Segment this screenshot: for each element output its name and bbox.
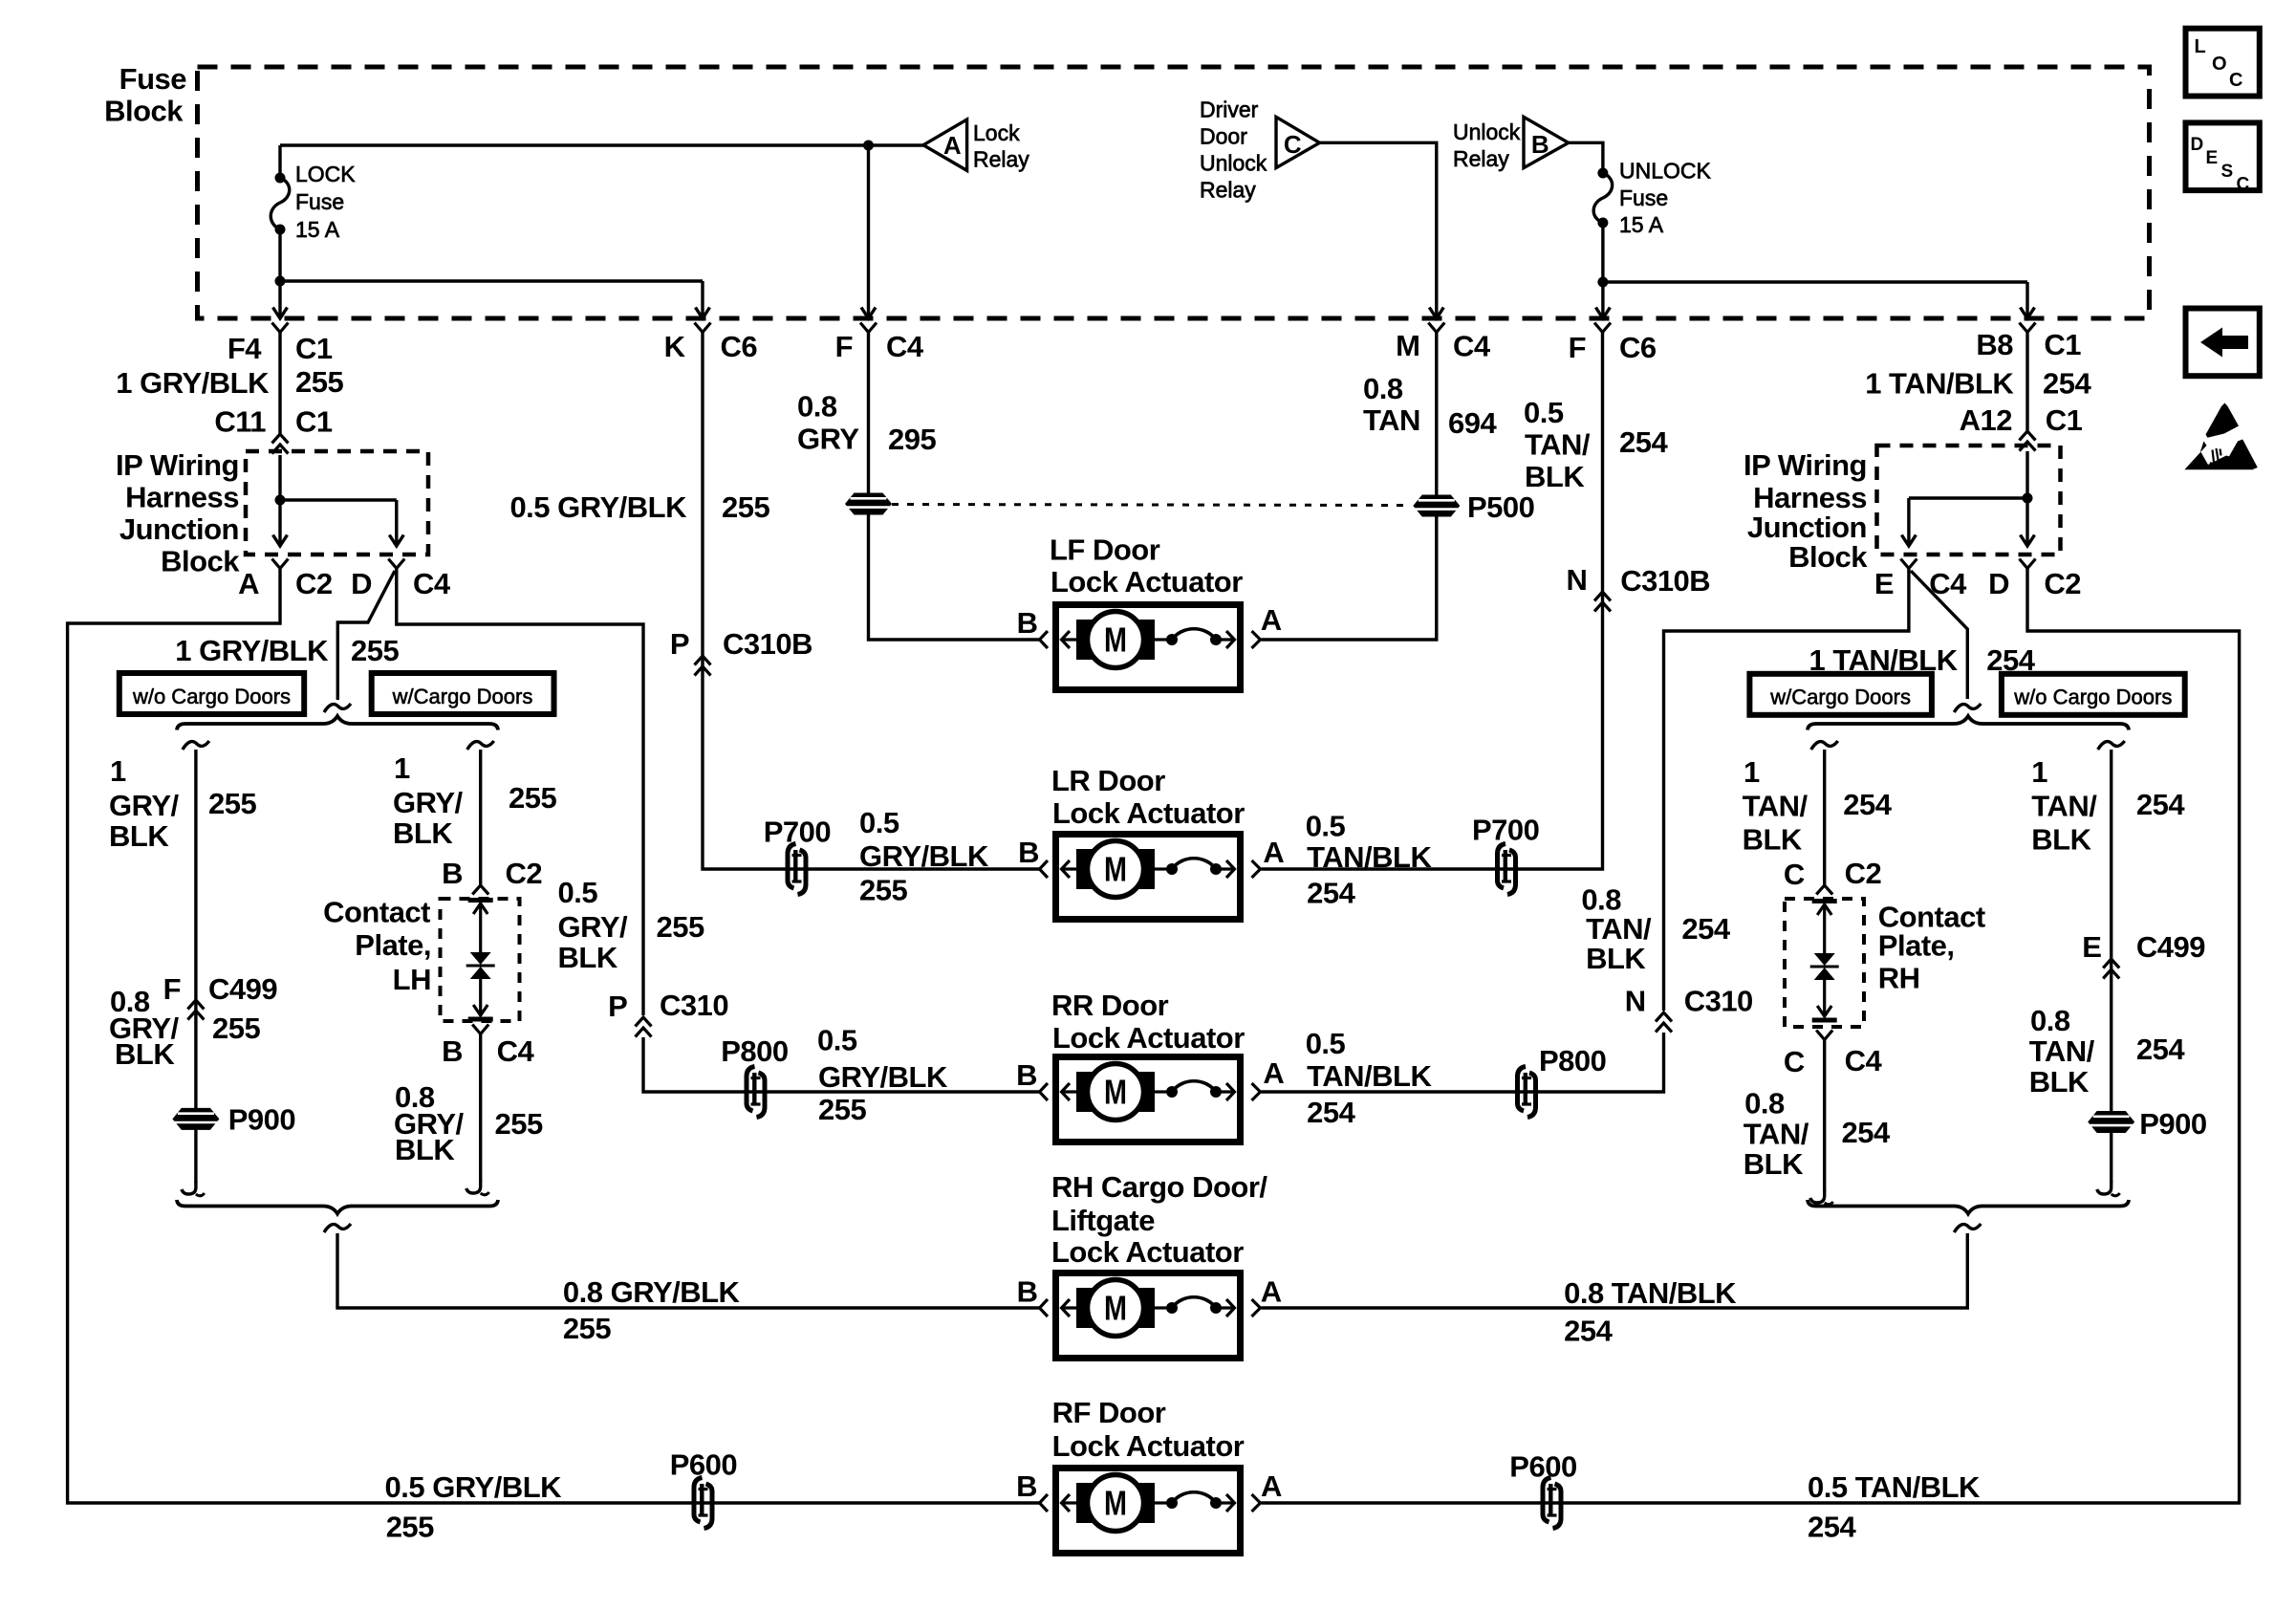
svg-text:C4: C4 [886, 330, 924, 363]
svg-text:Unlock: Unlock [1453, 120, 1521, 144]
svg-text:C310: C310 [660, 989, 728, 1022]
svg-text:0.5 GRY/BLK: 0.5 GRY/BLK [385, 1470, 563, 1504]
svg-text:254: 254 [1843, 788, 1892, 821]
svg-text:A: A [1263, 1056, 1284, 1090]
svg-text:M: M [1396, 329, 1419, 362]
svg-text:1 GRY/BLK: 1 GRY/BLK [116, 366, 270, 400]
svg-text:A: A [1261, 1469, 1282, 1503]
labels 1 TAN/BLK 254 at E/C4 branch [1809, 643, 2036, 677]
svg-text:BLK: BLK [109, 819, 169, 853]
svg-text:GRY/: GRY/ [109, 789, 180, 822]
svg-text:254: 254 [1307, 876, 1355, 909]
svg-text:P900: P900 [228, 1102, 295, 1136]
svg-text:255: 255 [212, 1012, 260, 1045]
svg-text:255: 255 [859, 874, 907, 907]
motor LF Door Lock Actuator [1040, 605, 1261, 690]
wire: D/C4 branch to center rail [397, 569, 643, 1016]
wire: B/C4 to bottom brace [479, 1033, 482, 1182]
svg-text:F4: F4 [227, 332, 262, 365]
connector P/C310 double chevron [636, 1017, 652, 1037]
svg-text:A: A [1261, 603, 1282, 637]
svg-text:0.5: 0.5 [558, 876, 598, 909]
labels 0.5 GRY/ BLK 255 at rail x673 [558, 876, 704, 974]
connector Y at F/C4 [860, 323, 877, 333]
svg-text:Block: Block [1788, 540, 1868, 574]
wire: relay C to M/C4 drop [1320, 142, 1437, 317]
svg-text:P500: P500 [1467, 490, 1534, 524]
svg-text:0.5: 0.5 [859, 806, 899, 839]
svg-text:P: P [608, 990, 627, 1023]
label LR Door Lock Actuator [1051, 764, 1245, 830]
labels 1 GRY/BLK 255 at D/C4 branch [175, 634, 399, 667]
labels 1 GRY/BLK 255 circuit [116, 365, 343, 400]
arrowhead A/C2 inside block [273, 535, 288, 547]
svg-text:w/o Cargo Doors: w/o Cargo Doors [2013, 685, 2172, 709]
svg-text:0.8: 0.8 [1744, 1087, 1785, 1120]
svg-text:B: B [1018, 836, 1039, 869]
svg-text:Plate,: Plate, [1878, 929, 1955, 963]
wire: F4/C1 to IP junction block [278, 332, 281, 436]
svg-text:BLK: BLK [395, 1133, 455, 1166]
wire: B8/C1 into right junction block [2025, 332, 2028, 433]
connector P600 right [1543, 1478, 1561, 1529]
svg-text:IP Wiring: IP Wiring [116, 448, 239, 482]
svg-text:255: 255 [208, 787, 256, 820]
svg-text:RH: RH [1878, 962, 1920, 995]
svg-text:P800: P800 [1539, 1044, 1606, 1077]
labels A C2 D C4 [238, 567, 451, 600]
svg-text:BLK: BLK [1525, 460, 1585, 493]
arrowhead K/C6 at block edge [696, 308, 710, 319]
labels M C4 [1396, 329, 1491, 363]
svg-text:BLK: BLK [1743, 823, 1803, 857]
wire: E/C4 to N rail to RR door actuator A [1664, 569, 1909, 1012]
svg-text:1: 1 [110, 754, 126, 788]
labels E C499 [2082, 930, 2205, 964]
svg-text:LR Door: LR Door [1051, 764, 1165, 797]
connector P800 left [747, 1067, 765, 1118]
callout box w/Cargo Doors right [1749, 674, 1932, 715]
svg-text:C6: C6 [1619, 331, 1657, 364]
svg-text:254: 254 [2136, 788, 2185, 821]
svg-text:C: C [1784, 1045, 1805, 1078]
svg-text:254: 254 [2136, 1033, 2185, 1066]
svg-text:P900: P900 [2139, 1107, 2206, 1141]
junction dot below lock fuse [275, 276, 286, 287]
labels C C4 [1784, 1044, 1883, 1078]
svg-text:Door: Door [1200, 124, 1247, 149]
labels 0.8 GRY/ BLK 255 [109, 985, 260, 1071]
svg-text:F: F [163, 972, 181, 1006]
svg-text:0.8 GRY/BLK: 0.8 GRY/BLK [563, 1275, 741, 1309]
svg-text:255: 255 [386, 1511, 434, 1544]
svg-text:F: F [1569, 331, 1586, 364]
connector Y at B/C4 [472, 1025, 488, 1034]
junction dot right block [2023, 493, 2033, 504]
svg-text:Lock Actuator: Lock Actuator [1052, 1021, 1245, 1055]
wire: C/C4 to right bottom brace [1823, 1039, 1826, 1191]
motor RH Cargo Door/Liftgate Lock Actuator [1040, 1273, 1261, 1359]
labels N C310 [1625, 985, 1753, 1018]
wire: K/C6 to LR door actuator B [703, 332, 1039, 869]
labels B C4 [442, 1034, 534, 1068]
svg-text:0.5: 0.5 [1306, 1027, 1346, 1060]
svg-text:0.8: 0.8 [1363, 372, 1403, 405]
svg-text:Plate,: Plate, [355, 928, 431, 962]
svg-text:15 A: 15 A [295, 217, 340, 242]
relay triangle C - Driver Door Unlock Relay [1276, 117, 1320, 167]
connector N/C310 double chevron [1656, 1012, 1672, 1033]
svg-text:B8: B8 [1976, 328, 2013, 361]
svg-text:254: 254 [1842, 1116, 1891, 1149]
svg-text:D: D [2191, 135, 2203, 155]
svg-text:C4: C4 [1453, 330, 1491, 363]
wire: F/C4 to LF door actuator B [869, 332, 1040, 640]
svg-text:C: C [1284, 130, 1302, 159]
svg-text:C: C [2237, 175, 2250, 195]
connector N/C310B double chevron [1594, 592, 1611, 612]
svg-text:E: E [1874, 567, 1894, 600]
labels F C499 [163, 972, 278, 1006]
svg-text:0.5: 0.5 [817, 1024, 857, 1057]
svg-text:E: E [2082, 930, 2101, 964]
svg-text:P700: P700 [1472, 814, 1539, 847]
tilde start branch TAN/BLK w/cargo right [1811, 741, 1838, 750]
svg-text:B: B [1017, 606, 1038, 640]
labels 1 GRY/ BLK 255 w/o branch [109, 754, 256, 853]
labels P C310B [670, 627, 812, 661]
svg-text:C2: C2 [1845, 857, 1882, 890]
svg-text:A: A [238, 567, 259, 600]
wire: F/C6 to LR door actuator A [1262, 332, 1603, 869]
svg-text:C499: C499 [208, 972, 277, 1006]
labels 0.8 GRY/ BLK 255 w/cargo branch lower [394, 1080, 543, 1166]
labels 0.5 GRY/BLK 255 K column [509, 490, 769, 524]
wire: lock fuse to K/C6 drop [280, 229, 703, 317]
wire: D/C2 to far-right rail to RF door actuator A [1262, 569, 2240, 1504]
connector Y at M/C4 [1428, 323, 1444, 333]
svg-text:Lock Actuator: Lock Actuator [1052, 796, 1245, 830]
connector Y at B8/C1 [2020, 323, 2036, 333]
arrowhead D/C2 inside block [2021, 535, 2035, 547]
wire inside right junction block [1909, 451, 2027, 544]
connector P800 right [1518, 1067, 1536, 1118]
connector P/C310B double chevron [695, 656, 711, 676]
motor RF Door Lock Actuator [1040, 1469, 1261, 1554]
wire: right w/o branch to P900 right [2110, 750, 2112, 1183]
Contact Plate RH dashed box [1785, 899, 1864, 1027]
labels 0.5 TAN/BLK 254 LR A side [1306, 809, 1433, 909]
svg-text:RH Cargo Door/: RH Cargo Door/ [1051, 1170, 1267, 1204]
hook end right w/o branch [2097, 1181, 2120, 1196]
label Unlock Relay [1453, 120, 1521, 171]
labels 0.5 TAN/ BLK 254 F/C6 column [1524, 396, 1668, 493]
connector P900 left [172, 1108, 219, 1130]
svg-text:Junction: Junction [1747, 511, 1867, 544]
wire: right group to RH cargo actuator A [1262, 1233, 1968, 1308]
svg-text:A: A [1261, 1275, 1282, 1309]
overbrace left cargo group [177, 716, 498, 730]
svg-text:B: B [1017, 1275, 1038, 1309]
labels F4 C1 [227, 332, 333, 365]
svg-text:255: 255 [295, 365, 343, 399]
labels 0.8 TAN/BLK 254 RH cargo A side [1564, 1276, 1737, 1347]
wire: C310 to RR door actuator B [643, 1037, 1039, 1092]
svg-text:TAN/: TAN/ [1744, 1117, 1809, 1150]
labels F C4 [835, 330, 924, 363]
label RH Cargo Door/ Liftgate Lock Actuator [1051, 1170, 1267, 1269]
svg-text:Relay: Relay [1200, 178, 1256, 203]
svg-text:C499: C499 [2136, 930, 2205, 964]
svg-text:C2: C2 [506, 857, 543, 890]
svg-text:GRY/BLK: GRY/BLK [818, 1060, 948, 1094]
svg-text:C310B: C310B [723, 627, 812, 661]
svg-text:255: 255 [509, 781, 556, 815]
contact plate RH internals [1810, 902, 1839, 1021]
arrowhead D/C4 inside block [389, 535, 403, 547]
label RF Door Lock Actuator [1052, 1396, 1245, 1463]
labels 0.8 TAN/ BLK 254 w/cargo right lower [1744, 1087, 1891, 1181]
svg-text:Fuse: Fuse [295, 189, 344, 214]
svg-text:P800: P800 [721, 1034, 788, 1068]
svg-text:B: B [1016, 1469, 1037, 1503]
tilde below right underbrace [1954, 1224, 1981, 1232]
svg-text:255: 255 [818, 1093, 866, 1126]
svg-text:D: D [1988, 567, 2009, 600]
svg-text:Lock Actuator: Lock Actuator [1052, 1429, 1245, 1463]
fuse block dashed enclosure [198, 67, 2150, 318]
svg-text:K: K [664, 330, 686, 363]
labels 0.8 TAN 694 [1363, 372, 1497, 440]
svg-text:Block: Block [104, 95, 184, 128]
svg-text:Lock Actuator: Lock Actuator [1051, 565, 1243, 598]
connector P700 right [1498, 844, 1516, 895]
svg-text:Junction: Junction [119, 512, 239, 546]
connector C11/C1 double chevron [272, 434, 289, 454]
svg-text:B: B [442, 857, 463, 890]
labels 0.5 TAN/BLK 254 RR A side [1306, 1027, 1433, 1129]
svg-text:254: 254 [2043, 366, 2091, 400]
wire diagonal from D/C4 to cargo group [337, 571, 395, 700]
fuse UNLOCK 15A symbol [1593, 168, 1613, 228]
connector chevron C/C2 [1816, 885, 1832, 895]
relay triangle A - Lock Relay [923, 120, 967, 170]
svg-text:1: 1 [394, 751, 410, 785]
svg-text:Contact: Contact [323, 896, 430, 929]
svg-text:TAN/: TAN/ [1743, 790, 1809, 823]
svg-text:GRY/: GRY/ [393, 786, 464, 819]
tilde below left underbrace [324, 1224, 351, 1232]
IP Wiring Harness Junction Block right dashed box [1877, 446, 2061, 555]
wire: A/C2 to far-left rail to RF door actuator [68, 569, 1039, 1504]
svg-text:Liftgate: Liftgate [1051, 1204, 1155, 1237]
arrowhead F4/C1 at block edge [273, 308, 288, 319]
connector A12/C1 double chevron [2020, 431, 2036, 451]
svg-text:IP Wiring: IP Wiring [1744, 448, 1867, 482]
label Contact Plate, LH [323, 896, 431, 997]
connector P500 right [1413, 495, 1460, 517]
svg-text:Relay: Relay [973, 147, 1029, 172]
motor LR Door Lock Actuator [1040, 835, 1261, 920]
tilde at right group feed [1954, 704, 1981, 712]
back-arrow reference box [2186, 309, 2260, 377]
svg-text:A12: A12 [1960, 403, 2012, 437]
svg-text:C1: C1 [295, 405, 333, 439]
svg-text:BLK: BLK [115, 1037, 175, 1071]
svg-text:GRY: GRY [797, 423, 859, 456]
svg-text:C4: C4 [413, 567, 451, 600]
connector F/C499 double chevron [187, 1000, 204, 1020]
svg-text:TAN/BLK: TAN/BLK [1307, 1059, 1432, 1093]
svg-text:P600: P600 [670, 1448, 737, 1482]
svg-text:LOCK: LOCK [295, 162, 356, 186]
labels 1 GRY/ BLK 255 w/cargo branch [393, 751, 556, 850]
svg-text:C2: C2 [2044, 567, 2081, 600]
svg-text:254: 254 [1564, 1314, 1613, 1347]
svg-text:1: 1 [1744, 755, 1760, 789]
svg-text:0.5: 0.5 [1306, 809, 1346, 842]
label Driver Door Unlock Relay [1200, 98, 1267, 203]
arrowhead E/C4 inside block [1901, 535, 1916, 547]
svg-text:295: 295 [888, 423, 936, 456]
wire: w/cargo branch to contact plate LH [479, 750, 482, 886]
labels 0.8 GRY/BLK 255 RH cargo B side [563, 1275, 741, 1345]
labels 0.5 TAN/BLK 254 RF A side [1808, 1470, 1981, 1544]
svg-text:P700: P700 [764, 816, 831, 849]
tilde start branch GRY/BLK w/cargo [467, 741, 494, 750]
arrowhead F/C4 at block edge [861, 308, 876, 319]
svg-text:C1: C1 [2046, 403, 2083, 437]
svg-text:BLK: BLK [1586, 942, 1646, 975]
wire: lock fuse feed to Lock Relay [280, 145, 923, 178]
tilde at left group feed [324, 704, 351, 712]
svg-text:Lock Actuator: Lock Actuator [1051, 1235, 1244, 1269]
LOC reference box [2186, 29, 2260, 97]
connector P700 left [788, 844, 806, 895]
svg-text:0.5: 0.5 [1524, 396, 1564, 429]
svg-text:BLK: BLK [558, 941, 618, 974]
contact plate LH internals [466, 901, 495, 1020]
connector P600 left [694, 1478, 712, 1529]
svg-text:C2: C2 [295, 567, 333, 600]
svg-text:0.5 TAN/BLK: 0.5 TAN/BLK [1808, 1470, 1981, 1504]
arrowhead M/C4 at block edge [1429, 308, 1443, 319]
svg-text:15 A: 15 A [1619, 212, 1664, 237]
labels A12 C1 [1960, 403, 2083, 437]
svg-text:0.8: 0.8 [2030, 1004, 2070, 1037]
connector Y at D/C4 [388, 559, 404, 569]
svg-text:C4: C4 [1845, 1044, 1883, 1077]
svg-text:C310: C310 [1684, 985, 1753, 1018]
connector chevron B/C2 [472, 885, 488, 895]
labels P C310 [608, 989, 728, 1023]
connector E/C499 double chevron [2103, 959, 2119, 979]
svg-text:RR Door: RR Door [1051, 989, 1169, 1022]
svg-text:Harness: Harness [1753, 481, 1867, 514]
arrowhead F/C6 at block edge [1595, 308, 1610, 319]
svg-text:N: N [1567, 563, 1588, 597]
label UNLOCK Fuse 15 A [1619, 159, 1712, 238]
labels C C2 [1784, 857, 1881, 891]
labels 0.5 GRY/BLK 255 at LR B side [859, 806, 989, 907]
hook end right w/cargo branch [1810, 1189, 1833, 1205]
svg-text:C6: C6 [721, 330, 758, 363]
svg-text:P600: P600 [1509, 1449, 1576, 1483]
IP Wiring Harness Junction Block left dashed box [246, 451, 428, 555]
svg-text:C: C [2229, 70, 2242, 91]
label Lock Relay [973, 120, 1029, 172]
callout box w/o Cargo Doors left [119, 673, 304, 714]
svg-text:N: N [1625, 985, 1646, 1018]
connector Y at C/C4 [1816, 1031, 1832, 1040]
labels 1 TAN/BLK 254 B8 column [1865, 366, 2091, 400]
svg-text:254: 254 [1307, 1096, 1355, 1129]
svg-text:254: 254 [1681, 912, 1730, 946]
connector P900 right [2088, 1111, 2134, 1133]
connector Y at F4/C1 [272, 323, 289, 333]
svg-text:C4: C4 [497, 1034, 535, 1068]
labels F C6 [1569, 331, 1657, 364]
svg-text:B: B [1531, 130, 1549, 159]
svg-text:A: A [1263, 836, 1284, 869]
labels K C6 [664, 330, 758, 363]
wire: M/C4 to LF door actuator A [1262, 332, 1437, 640]
wire: left group to RH cargo actuator B [337, 1233, 1039, 1308]
labels 0.5 GRY/BLK 255 at RR B side [817, 1024, 948, 1127]
labels B8 C1 [1976, 328, 2081, 361]
svg-text:D: D [351, 567, 372, 600]
svg-text:694: 694 [1448, 406, 1497, 440]
svg-text:TAN/: TAN/ [2031, 790, 2097, 823]
svg-text:B: B [442, 1034, 463, 1068]
svg-text:GRY/BLK: GRY/BLK [859, 839, 989, 873]
underbrace left cargo group [177, 1200, 498, 1214]
connector P500 left [845, 493, 892, 515]
svg-text:w/Cargo Doors: w/Cargo Doors [392, 685, 533, 708]
svg-text:255: 255 [657, 910, 704, 944]
svg-text:TAN/BLK: TAN/BLK [1307, 840, 1432, 874]
svg-text:Driver: Driver [1200, 98, 1259, 122]
svg-text:GRY/: GRY/ [558, 910, 629, 944]
hook end w/cargo branch [466, 1180, 489, 1195]
svg-text:O: O [2212, 54, 2226, 75]
label LOCK Fuse 15 A [295, 162, 356, 242]
relay triangle B - Unlock Relay [1524, 117, 1569, 167]
hook end w/o branch [182, 1181, 205, 1196]
svg-text:1 GRY/BLK: 1 GRY/BLK [175, 634, 329, 667]
svg-text:254: 254 [1808, 1511, 1856, 1544]
svg-text:A: A [943, 131, 962, 160]
svg-text:Lock: Lock [973, 120, 1020, 145]
svg-text:Block: Block [161, 545, 240, 578]
svg-text:LF Door: LF Door [1050, 533, 1160, 567]
svg-text:Relay: Relay [1453, 146, 1509, 171]
labels 0.8 GRY 295 [797, 390, 936, 457]
svg-text:1 TAN/BLK: 1 TAN/BLK [1865, 366, 2014, 400]
svg-text:254: 254 [1619, 425, 1668, 459]
label Fuse Block [104, 62, 186, 128]
svg-text:B: B [1016, 1058, 1037, 1092]
svg-text:Harness: Harness [125, 481, 239, 514]
connector Y at E/C4 [1900, 559, 1917, 569]
svg-text:255: 255 [351, 634, 399, 667]
dashed link P500 [892, 505, 1412, 506]
junction dot at F/C4 drop [863, 141, 874, 151]
svg-text:w/o Cargo Doors: w/o Cargo Doors [132, 685, 291, 708]
svg-text:F: F [835, 330, 853, 363]
svg-text:S: S [2221, 162, 2233, 182]
junction dot below unlock fuse [1597, 277, 1608, 288]
